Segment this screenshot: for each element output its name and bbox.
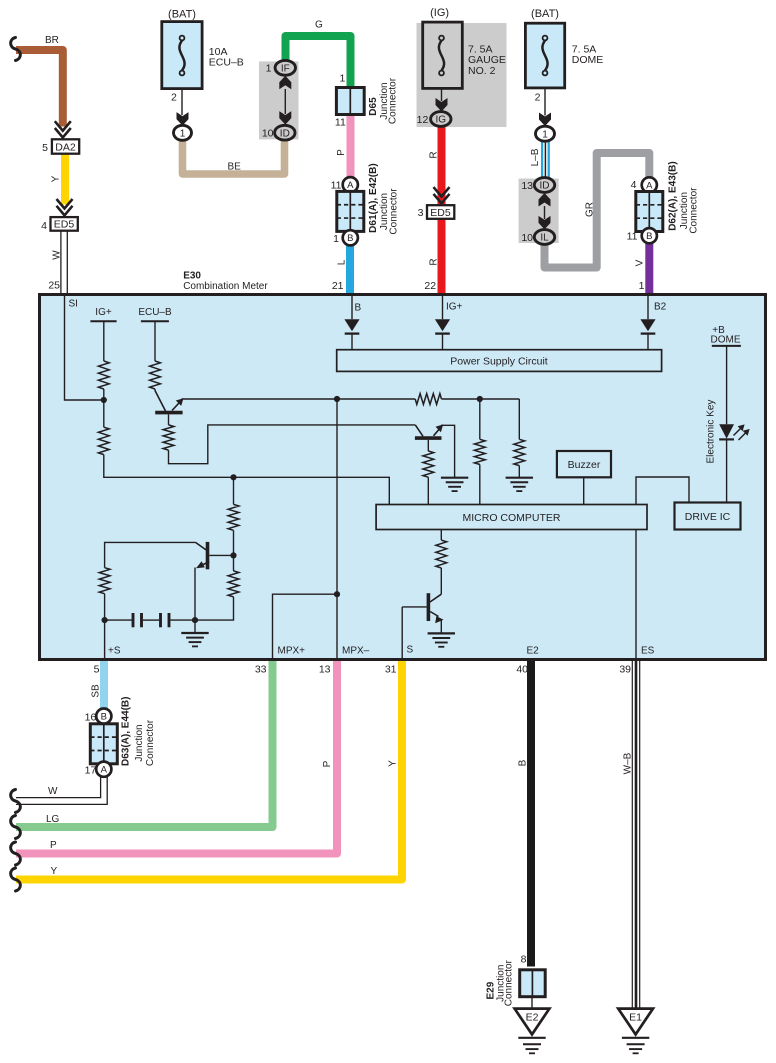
svg-text:IL: IL xyxy=(540,233,549,244)
svg-text:17: 17 xyxy=(85,765,97,777)
svg-text:11: 11 xyxy=(335,117,346,129)
ground E1 xyxy=(618,1009,653,1035)
svg-text:P: P xyxy=(322,760,333,767)
wire buzzer to micro computer xyxy=(583,477,585,504)
wire fuse DOME to terminal 1 xyxy=(544,88,546,116)
svg-text:(BAT): (BAT) xyxy=(168,9,196,21)
terminal 10 IL xyxy=(534,230,554,245)
svg-text:D62(A), E43(B): D62(A), E43(B) xyxy=(668,161,679,230)
arrow into terminal 1 xyxy=(177,112,189,126)
wire SI from pin 25 xyxy=(65,296,104,400)
svg-text:DOME: DOME xyxy=(572,54,604,66)
fuse 7.5A GAUGE NO.2 xyxy=(423,22,463,88)
wire L blue xyxy=(346,246,354,297)
chevrons into DA2 xyxy=(55,128,71,138)
wire SB skyblue xyxy=(100,658,108,709)
node MPX junction xyxy=(334,591,340,597)
wire W white upper xyxy=(60,231,62,296)
svg-text:DOME: DOME xyxy=(711,335,741,346)
LED electronic key xyxy=(719,424,734,438)
resistor R7 (Q2 collector) xyxy=(423,451,434,477)
svg-text:10: 10 xyxy=(521,232,533,244)
ground E2 xyxy=(515,1009,550,1035)
svg-text:S: S xyxy=(407,645,414,656)
wire Q1 collector to Q2 base xyxy=(169,425,416,464)
svg-text:R: R xyxy=(429,258,440,265)
diode D1 (pin 21 B) xyxy=(351,296,353,319)
resistor R6 (to micro computer) xyxy=(479,399,481,439)
svg-text:MPX+: MPX+ xyxy=(278,646,306,657)
diode D2 (pin 22 IG+) xyxy=(442,296,444,319)
wire W white from D63 xyxy=(16,777,101,798)
svg-text:P: P xyxy=(50,840,57,851)
svg-text:1: 1 xyxy=(639,280,645,292)
resistor R10 (Q4 base) xyxy=(99,568,110,594)
wire G green xyxy=(286,36,351,88)
resistor R12 (Q3 collector) xyxy=(436,540,447,568)
svg-text:ECU–B: ECU–B xyxy=(209,57,244,69)
svg-text:ID: ID xyxy=(540,181,550,192)
svg-text:31: 31 xyxy=(385,664,397,676)
transistor Q4 xyxy=(104,594,106,620)
svg-text:16: 16 xyxy=(85,712,97,724)
connector 5 DA2 xyxy=(52,139,79,153)
svg-text:L–B: L–B xyxy=(530,148,541,166)
svg-text:33: 33 xyxy=(255,664,267,676)
svg-text:2: 2 xyxy=(171,92,177,104)
wire ID to IL xyxy=(544,206,546,219)
junction connector D65 xyxy=(336,88,364,115)
svg-text:V: V xyxy=(635,259,646,266)
wire IG+ chain to bus xyxy=(104,455,390,505)
wire P pink bottom xyxy=(16,658,337,854)
svg-text:25: 25 xyxy=(48,280,60,292)
terminal 10 ID xyxy=(275,125,295,140)
svg-text:+S: +S xyxy=(108,646,121,657)
wire drive ic hook xyxy=(636,477,689,505)
wire W-B white-black xyxy=(631,658,633,1008)
svg-text:E2: E2 xyxy=(526,1012,539,1024)
arrow up to IF xyxy=(279,76,291,90)
capacitor C1 xyxy=(105,619,132,621)
buzzer box xyxy=(557,451,611,477)
svg-text:IG+: IG+ xyxy=(446,302,463,313)
svg-text:Electronic Key: Electronic Key xyxy=(706,400,717,464)
svg-text:A: A xyxy=(646,180,653,191)
svg-text:11: 11 xyxy=(331,179,342,191)
svg-text:B2: B2 xyxy=(654,302,667,313)
chevrons into ED5 (red) xyxy=(434,194,450,204)
arrow down to IL xyxy=(539,216,551,230)
svg-text:B: B xyxy=(355,303,362,314)
svg-text:12: 12 xyxy=(417,114,429,126)
svg-text:R: R xyxy=(429,151,440,158)
wire MPX vertical xyxy=(336,399,338,658)
svg-text:3: 3 xyxy=(418,207,424,219)
wire IF to ID xyxy=(284,89,286,114)
arrow up to ID xyxy=(539,193,551,207)
node bus/oscillator xyxy=(230,474,236,480)
pigtail Y bottom xyxy=(11,868,21,891)
wire fuse ECU-B to terminal 1 xyxy=(181,89,183,115)
pigtail P bottom xyxy=(11,842,21,865)
svg-text:MICRO COMPUTER: MICRO COMPUTER xyxy=(463,512,561,524)
svg-text:A: A xyxy=(101,765,108,776)
svg-text:Power Supply Circuit: Power Supply Circuit xyxy=(450,355,548,367)
svg-text:1: 1 xyxy=(542,129,548,140)
svg-text:E1: E1 xyxy=(629,1012,642,1024)
svg-text:BE: BE xyxy=(228,162,242,173)
svg-text:D65: D65 xyxy=(368,97,379,116)
svg-text:11: 11 xyxy=(627,231,638,243)
svg-text:Buzzer: Buzzer xyxy=(568,459,601,471)
resistor R11 (osc feedback) xyxy=(195,597,234,620)
ground Q3 emitter xyxy=(428,632,455,634)
node R6 top xyxy=(477,396,483,402)
resistor R4 (Q1 collector) xyxy=(163,425,174,450)
svg-text:13: 13 xyxy=(521,180,533,192)
terminal 13 ID xyxy=(534,178,554,193)
pigtail LG xyxy=(11,816,21,839)
wire R red lower xyxy=(438,217,446,296)
wire R red upper xyxy=(438,127,446,205)
resistor R3 (ECU-B) xyxy=(150,361,161,389)
svg-text:NO. 2: NO. 2 xyxy=(468,65,496,77)
node on IG+ chain xyxy=(101,397,107,403)
diode D3 (pin 1 B2) xyxy=(647,296,649,319)
terminal 1 IF xyxy=(275,60,295,75)
wire P pink xyxy=(347,115,355,178)
chevrons into ED5 xyxy=(57,206,73,216)
fuse 10A ECU-B xyxy=(162,22,202,89)
svg-text:Connector: Connector xyxy=(504,959,515,1006)
wire Y yellow bottom xyxy=(16,658,402,880)
svg-text:G: G xyxy=(315,20,323,31)
svg-text:LG: LG xyxy=(46,814,60,825)
svg-text:Combination Meter: Combination Meter xyxy=(183,281,268,292)
power supply circuit box xyxy=(337,350,662,372)
node Q4 collector xyxy=(230,552,236,558)
svg-text:B: B xyxy=(646,231,652,242)
svg-text:ED5: ED5 xyxy=(54,219,75,231)
svg-text:13: 13 xyxy=(319,664,331,676)
transistor Q1 xyxy=(154,389,156,391)
svg-text:IG+: IG+ xyxy=(95,307,112,318)
svg-text:ID: ID xyxy=(280,128,290,139)
svg-text:Connector: Connector xyxy=(388,188,399,235)
svg-text:Connector: Connector xyxy=(388,77,399,124)
junction connector D61(A),E42(B) xyxy=(343,177,358,192)
svg-text:(IG): (IG) xyxy=(430,7,449,19)
gray panel IF/ID junction block xyxy=(259,61,299,139)
wire B black xyxy=(527,658,535,967)
resistor R1 (IG+ upper) xyxy=(98,361,109,389)
svg-text:21: 21 xyxy=(332,280,344,292)
wire LG light green xyxy=(16,658,273,827)
svg-text:2: 2 xyxy=(535,92,541,104)
wire emitter bus y=399 xyxy=(182,398,416,400)
junction connector D63(A),E44(B) xyxy=(96,709,111,724)
svg-text:39: 39 xyxy=(619,664,631,676)
fuse 7.5A DOME xyxy=(525,23,564,88)
oscillator: resistor R9 top xyxy=(233,477,235,504)
svg-text:ED5: ED5 xyxy=(430,207,451,219)
terminal 12 IG xyxy=(431,112,451,127)
svg-text:Y: Y xyxy=(51,866,58,877)
E30 border xyxy=(40,295,766,660)
svg-text:SB: SB xyxy=(91,684,102,698)
svg-text:E2: E2 xyxy=(527,646,540,657)
node osc right xyxy=(192,617,198,623)
svg-text:B: B xyxy=(347,233,353,244)
pigtail BR xyxy=(11,38,21,61)
wire BE beige xyxy=(183,140,285,175)
svg-text:4: 4 xyxy=(631,179,637,191)
resistor R5 horizontal xyxy=(415,394,441,405)
connector 4 ED5 xyxy=(51,217,78,231)
svg-text:Connector: Connector xyxy=(145,719,156,766)
wire V violet xyxy=(645,243,653,296)
svg-text:GR: GR xyxy=(585,202,596,217)
svg-text:5: 5 xyxy=(42,142,48,154)
svg-text:4: 4 xyxy=(41,220,47,232)
transistor Q2 xyxy=(415,425,423,436)
terminal 1 (ECU-B) xyxy=(174,125,192,140)
svg-text:1: 1 xyxy=(266,63,272,75)
svg-text:W: W xyxy=(48,786,58,797)
svg-text:W: W xyxy=(52,250,63,260)
connector 3 ED5 xyxy=(427,205,454,219)
wire GR gray xyxy=(545,153,650,268)
drive ic box xyxy=(675,503,741,530)
wire BR brown xyxy=(16,50,63,127)
node osc left xyxy=(102,617,108,623)
wire Y yellow xyxy=(61,154,69,205)
svg-text:22: 22 xyxy=(424,280,436,292)
terminal 1 (DOME) xyxy=(536,126,555,141)
svg-text:B: B xyxy=(101,712,107,723)
transistor Q3 xyxy=(430,594,441,602)
ground Q2 emitter xyxy=(441,477,468,479)
svg-text:B: B xyxy=(517,759,528,766)
ECU-B rail xyxy=(141,320,169,322)
svg-text:Connector: Connector xyxy=(688,187,699,234)
resistor R2 (IG+ lower) xyxy=(103,400,105,427)
ground R8 xyxy=(506,477,533,479)
resistor R8 (right, grounded) xyxy=(518,399,520,439)
svg-text:IF: IF xyxy=(281,63,290,74)
svg-text:D63(A), E44(B): D63(A), E44(B) xyxy=(120,697,131,766)
capacitor C2 xyxy=(159,613,162,627)
svg-text:1: 1 xyxy=(333,233,339,245)
svg-text:SI: SI xyxy=(69,299,78,310)
svg-text:ECU–B: ECU–B xyxy=(138,307,172,318)
svg-text:D61(A), E42(B): D61(A), E42(B) xyxy=(368,163,379,232)
arrow into terminal IG xyxy=(436,98,448,112)
svg-text:8: 8 xyxy=(521,954,527,966)
wire S chain from micro computer xyxy=(440,530,442,541)
svg-text:W–B: W–B xyxy=(623,752,634,774)
pigtail W bottom xyxy=(11,790,21,813)
wire ES from micro computer xyxy=(635,530,637,659)
gray panel ID/IL junction block xyxy=(519,179,559,244)
junction connector D62(A),E43(B) xyxy=(642,177,657,192)
wire fuse GAUGE to terminal IG xyxy=(441,88,443,101)
svg-text:L: L xyxy=(337,259,348,265)
svg-text:40: 40 xyxy=(516,664,528,676)
svg-text:Junction: Junction xyxy=(134,724,145,761)
svg-text:10: 10 xyxy=(262,128,274,140)
gray panel behind IG fuse xyxy=(417,23,507,127)
arrow into terminal 1 (DOME) xyxy=(539,113,551,127)
svg-text:MPX–: MPX– xyxy=(342,646,370,657)
svg-text:5: 5 xyxy=(94,664,100,676)
svg-text:Y: Y xyxy=(387,760,398,767)
ground oscillator xyxy=(194,620,196,633)
svg-text:ES: ES xyxy=(641,646,655,657)
svg-text:Y: Y xyxy=(51,175,62,182)
svg-text:1: 1 xyxy=(180,128,186,139)
svg-text:E30: E30 xyxy=(183,271,201,282)
wire +S pin xyxy=(104,620,106,658)
svg-text:P: P xyxy=(336,149,347,156)
svg-text:IG: IG xyxy=(436,115,447,126)
combination meter E30 box xyxy=(40,295,766,660)
wire MPX+ xyxy=(273,594,338,658)
svg-text:DA2: DA2 xyxy=(55,141,76,153)
svg-text:(BAT): (BAT) xyxy=(531,8,559,20)
node bus MPX xyxy=(334,396,340,402)
svg-text:A: A xyxy=(347,180,354,191)
micro computer box xyxy=(376,505,647,530)
wire E29 to ground E2 xyxy=(531,997,533,1009)
svg-text:1: 1 xyxy=(339,73,345,85)
svg-text:BR: BR xyxy=(45,35,59,46)
wire L-B blue-black xyxy=(541,141,543,178)
arrow down to ID xyxy=(279,111,291,125)
IG+ rail xyxy=(90,320,116,322)
svg-text:DRIVE IC: DRIVE IC xyxy=(685,511,731,523)
